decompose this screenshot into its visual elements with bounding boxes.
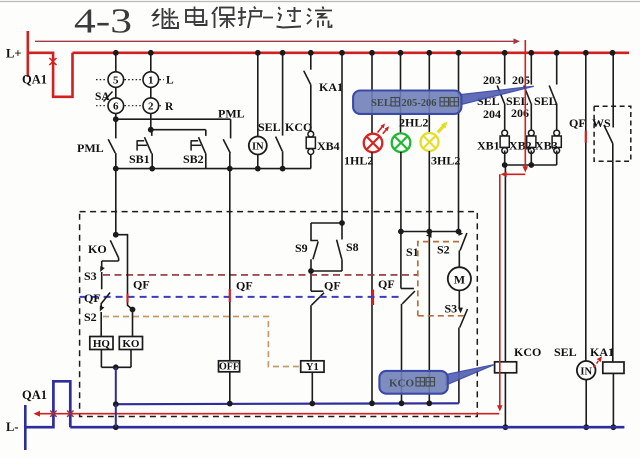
node under 6 [113,116,119,122]
node S9S8 top [339,220,345,226]
dashed enclosure box [80,212,478,417]
wire under HQ KO [101,350,131,371]
wire XB bottoms [502,151,557,168]
wire bus to contact 1 [150,53,152,72]
label 2HL2 [399,116,428,130]
svg-text:S1: S1 [406,245,419,259]
node under 2 [148,127,154,133]
wire bus to 1HL2 [371,53,373,134]
wire y231.5 [401,229,462,235]
X mark crossing 1 [50,411,56,417]
svg-text:SB2: SB2 [183,152,204,166]
contact KO [110,240,118,261]
button OFF [219,361,240,373]
label SEL 3 [534,94,557,108]
left stack S3 [84,261,105,289]
svg-text:QF: QF [133,278,150,292]
wire S9S8 bottom link [308,268,342,274]
wire XB4 to bus168 [310,155,312,169]
title chinese 继 [153,8,179,28]
svg-text:QF: QF [84,291,101,305]
coil KO [119,337,142,350]
contact QF x400 [378,232,415,404]
svg-text:SEL: SEL [554,345,577,359]
node subbus left [113,401,119,407]
wire subbus to L- bus [115,404,117,427]
label 3HL2 [431,154,460,168]
motor M [448,267,471,290]
label QA1 bottom [22,388,47,402]
svg-text:6: 6 [113,101,119,113]
SA dotted links [96,80,164,106]
contact S8 [337,223,359,271]
wire KCO coil down [503,373,509,430]
svg-text:S9: S9 [295,241,308,255]
wire bus to IN [257,53,259,137]
svg-text:2HL2: 2HL2 [399,116,428,130]
wire OFF down [229,372,231,404]
title text 4-3 [74,2,132,41]
wire 3HL2 down [428,151,430,403]
contact PML2 [223,119,230,168]
title chinese 护 [238,7,263,29]
L- bus (blue) [70,426,624,429]
svg-text:QA1: QA1 [22,73,47,87]
red dashed arrow IN to KA1 [594,355,604,368]
wire 1 to 2 [150,87,152,97]
wire PML1 down to KO [113,169,119,238]
dashed box WS [594,106,631,161]
label QF off column [236,279,253,293]
svg-text:5: 5 [113,75,119,87]
SA contact 6 [108,98,124,114]
contact QF under S9S8 [311,271,341,361]
title chinese 保 [212,7,236,28]
wire Y1 down [311,372,313,403]
X mark crossing 2 [67,411,73,417]
label 203 [483,73,501,87]
svg-text:1HL2: 1HL2 [344,154,373,168]
label PML right [218,107,245,121]
pushbutton S9 [295,223,318,271]
wire 5 to 6 [115,87,117,97]
svg-text:KA1: KA1 [590,345,614,359]
callout KCO energized [379,365,493,394]
QA1 breaker jog (red) [28,53,73,97]
coil KCO [495,362,517,373]
red path elbow to x499 [497,172,525,412]
svg-text:SEL: SEL [534,94,557,108]
svg-text:IN: IN [252,142,264,153]
label L- [6,420,19,434]
svg-text:204: 204 [483,107,501,121]
SA contact 1 [143,72,159,88]
svg-text:KCO: KCO [389,378,415,390]
wire PML2 down to OFF [229,169,231,361]
left stack QF contact [84,291,110,305]
label QF branch [133,278,150,292]
svg-text:XB4: XB4 [317,139,340,153]
label SB1 [129,152,150,166]
fuse link XB2 [527,130,536,153]
fuse link XB1 [500,130,509,153]
svg-text:S8: S8 [346,240,359,254]
svg-text:SEL: SEL [258,120,281,134]
fuse link XB4 [306,131,315,154]
red path down x525 [523,40,529,173]
wire IN to bus168 [257,155,259,169]
label QA1 top [22,73,47,87]
svg-text:3HL2: 3HL2 [431,154,460,168]
svg-text:QA1: QA1 [22,388,47,402]
node y231 x400 [398,229,404,235]
wire to KCO coil [504,165,506,362]
indicator IN (SEL) bottom [577,361,596,380]
label SEL top [258,120,281,134]
svg-text:XB3: XB3 [535,139,558,153]
QA1 jog bottom (blue) [25,381,70,427]
lamp 3HL2 (yellow) [421,133,439,151]
svg-text:L: L [166,75,174,87]
label KCO bottom [514,345,541,359]
label KCO top [285,120,312,134]
blue dashed interlock line [80,296,401,298]
brown dashed box [418,242,465,316]
red arrows at 1HL2 [378,122,391,134]
svg-text:XB1: XB1 [477,139,500,153]
callout SEL 205-206 closes [353,86,534,114]
label KA1 bottom [590,345,614,359]
svg-text:205: 205 [512,73,530,87]
node L- x115.8 [113,424,119,430]
label KO [88,242,107,256]
svg-text:HQ: HQ [93,338,111,350]
svg-text:IN: IN [580,366,592,377]
svg-text:PML: PML [77,141,104,155]
wire bus y168.6 [116,168,311,170]
contact SEL third [549,53,557,130]
contact SEL 203-204 [497,53,505,130]
label R [165,101,174,113]
yellow arrow at 3HL2 [438,120,450,133]
wire KA1 coil down [611,373,617,430]
wire M to S3 [458,290,460,308]
SA contact 2 [143,98,159,114]
svg-text:S3: S3 [84,269,97,283]
title chinese 电 [186,7,207,26]
label XB4 [317,139,340,153]
QA1 open mark X [49,58,56,65]
wire bus to 2HL2 [400,53,402,134]
node y231 x429 [426,229,432,235]
label L [166,75,174,87]
svg-text:KO: KO [122,338,140,350]
lamp 2HL2 (green) [392,133,411,152]
title chinese 流 [307,7,332,28]
red return line [34,411,500,417]
indicator IN (SEL) top [249,137,267,155]
label 1HL2 [344,154,373,168]
svg-text:L+: L+ [6,47,21,61]
red mark on KO branch [126,294,128,303]
label XB1 [477,139,500,153]
left stack S2 [84,304,104,336]
label XB2 [509,139,532,153]
red mark QF on 1HL2 column [372,290,374,306]
svg-text:206: 206 [511,106,529,120]
title chinese 过 [277,7,302,28]
wire bus to S9S8 [341,53,343,223]
SA contact 5 [108,72,124,88]
svg-text:QF: QF [236,279,253,293]
svg-text:S2: S2 [437,243,450,257]
svg-text:WS: WS [592,116,611,130]
coil HQ [90,337,113,350]
svg-text:205-206: 205-206 [402,98,437,109]
svg-text:L-: L- [6,420,19,434]
label XB3 [535,139,558,153]
wire row y130 [151,114,206,130]
svg-text:R: R [165,101,174,113]
svg-text:KCO: KCO [514,345,541,359]
wire bus to WS [612,53,614,106]
contact S2 [437,232,467,268]
L- terminal bar [24,405,27,450]
svg-text:KA1: KA1 [319,80,343,94]
contact S3 with marker [445,302,468,404]
svg-text:M: M [454,273,465,287]
faint top border line [0,1,640,3]
label SA [95,91,113,103]
dark red dashed interlock line [103,274,418,276]
L+ terminal bar [26,31,29,77]
label SB2 [183,152,204,166]
label QF right [569,116,586,130]
lamp 1HL2 (red) [364,134,383,153]
branch to KO coil [116,235,136,337]
contact SEL 205-206 [524,53,532,130]
red mark QF on OFF column [229,289,231,302]
pushbutton SB1 [137,130,153,169]
svg-text:4-3: 4-3 [74,2,132,41]
bus junction dots [113,50,615,56]
pushbutton SB2 [191,130,206,169]
fuse link XB3 [552,130,561,153]
label 205 [512,73,530,87]
wire bus to 3HL2 [428,53,430,133]
coil KA1 [603,362,624,373]
svg-text:Y1: Y1 [306,362,319,373]
contact KA1 [304,53,311,131]
coil Y1 [301,361,324,373]
wire row y119 [116,114,231,120]
svg-text:1: 1 [148,75,154,87]
switch S1 marker [406,233,432,259]
svg-text:XB2: XB2 [509,139,532,153]
svg-text:QF: QF [569,116,586,130]
junction dots y168.6 [113,166,286,172]
S3 bracket bar [102,260,119,262]
label 204 [483,107,501,121]
label SEL 1 [477,94,500,108]
contact KCO [276,53,283,169]
wire 1HL2 down [371,152,373,403]
wire S9S8 top link [311,222,342,224]
red mark on QF column [585,131,587,143]
wire IN bottom down [583,380,589,431]
svg-text:203: 203 [483,73,501,87]
label SEL bottom [554,345,577,359]
title dash [263,17,273,19]
svg-text:QF: QF [324,279,341,293]
label WS [592,116,611,130]
svg-text:KO: KO [88,242,107,256]
wire bus down x458 [458,53,460,232]
svg-text:SEL: SEL [371,98,391,109]
wire WS to KA1 coil [612,161,614,362]
label L+ [6,47,21,61]
label SEL 2 [506,94,529,108]
svg-text:OFF: OFF [219,362,239,373]
contact WS [604,106,613,161]
svg-text:QF: QF [378,277,395,291]
wire HQKO to subbus [115,367,117,404]
svg-text:S2: S2 [84,310,97,324]
wire QF column [585,53,587,361]
svg-text:SB1: SB1 [129,152,150,166]
wire bus to contact 5 [115,53,117,72]
sub bus dots [227,400,432,406]
contact PML1 [108,119,116,168]
sub bus y403.5 [116,402,459,405]
svg-text:S3: S3 [445,302,458,316]
label 206 [511,106,529,120]
wire 2HL2 down [400,152,402,232]
label KA1 top [319,80,343,94]
red flow annotation line [35,38,520,44]
svg-text:2: 2 [148,101,154,113]
label PML left [77,141,104,155]
brown dashed path to Y1 [103,317,301,367]
L+ bus (red) [73,51,630,54]
svg-text:PML: PML [218,107,245,121]
